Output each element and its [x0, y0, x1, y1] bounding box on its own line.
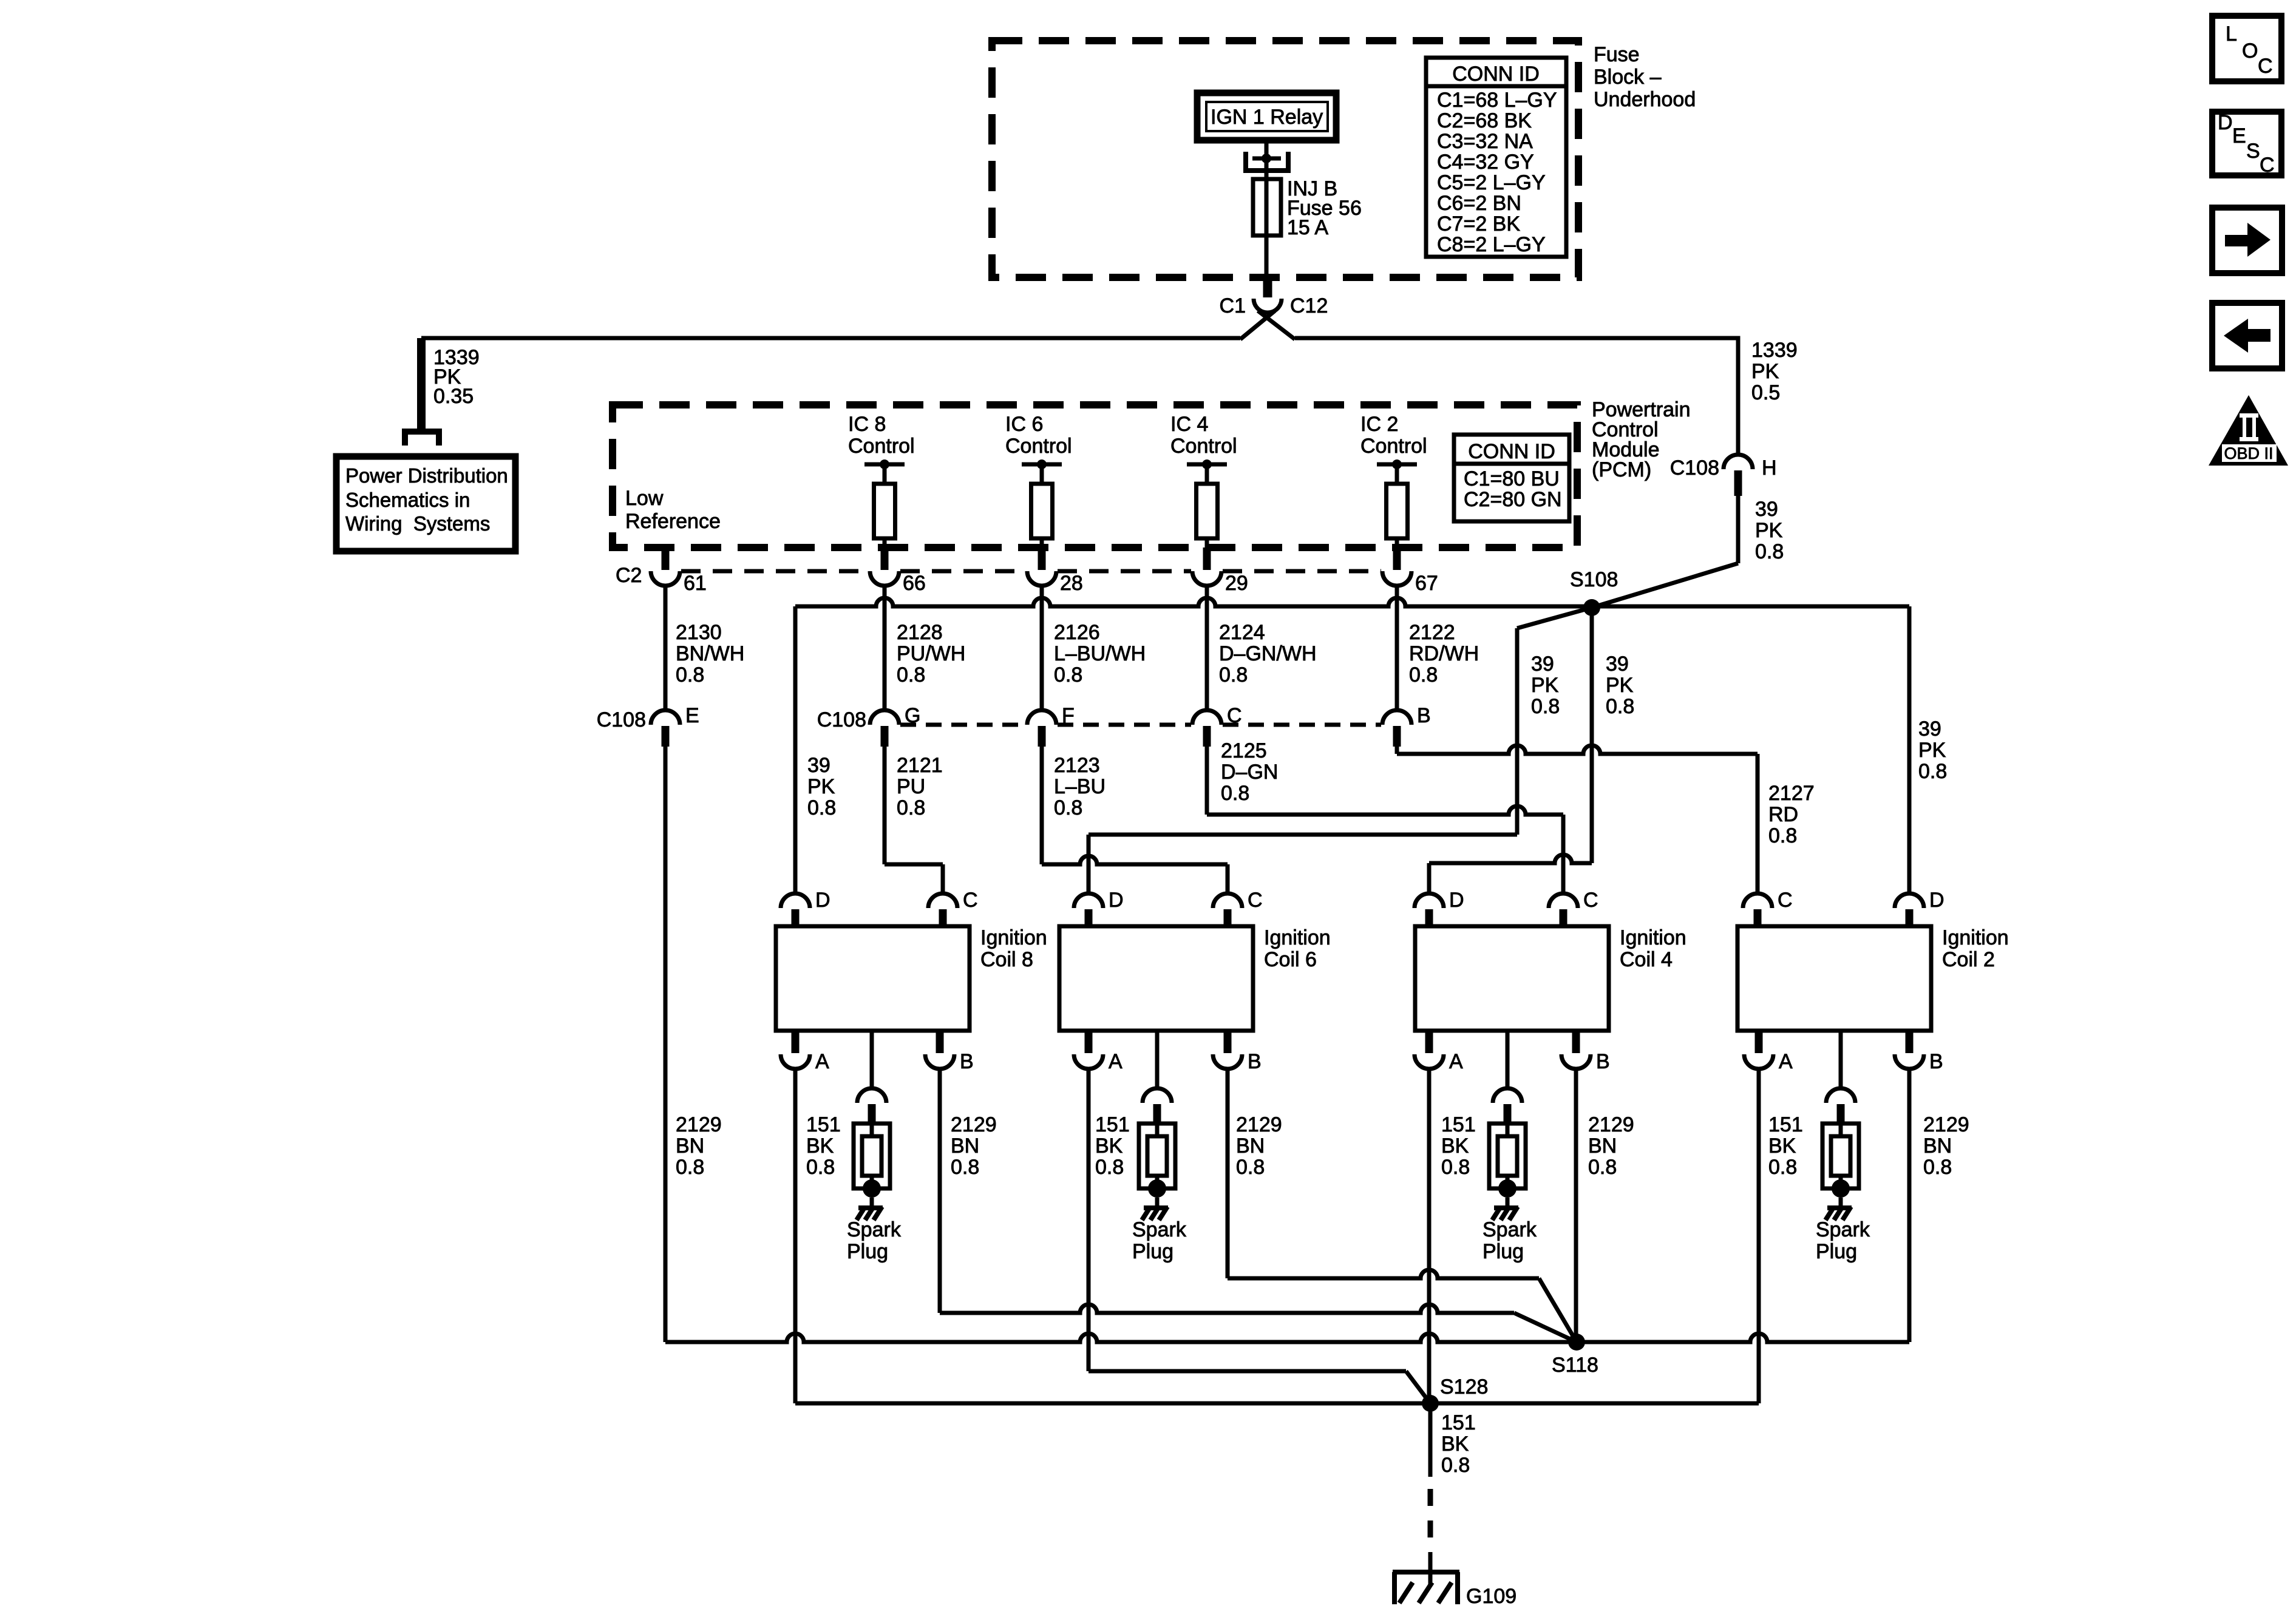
- svg-text:BK: BK: [1441, 1134, 1469, 1158]
- svg-text:0.8: 0.8: [1768, 1156, 1797, 1179]
- svg-text:0.8: 0.8: [897, 796, 925, 819]
- svg-text:C8=2 L–GY: C8=2 L–GY: [1437, 233, 1546, 256]
- svg-text:Underhood: Underhood: [1594, 88, 1696, 111]
- svg-text:G109: G109: [1466, 1585, 1517, 1608]
- svg-text:0.8: 0.8: [1918, 760, 1947, 783]
- svg-text:L–BU: L–BU: [1054, 775, 1106, 798]
- svg-text:0.8: 0.8: [1588, 1156, 1617, 1179]
- svg-text:0.8: 0.8: [1606, 695, 1634, 718]
- svg-text:0.8: 0.8: [1441, 1454, 1470, 1477]
- svg-text:67: 67: [1415, 572, 1438, 595]
- svg-text:0.8: 0.8: [676, 1156, 704, 1179]
- svg-text:RD: RD: [1768, 803, 1798, 826]
- svg-text:H: H: [1762, 456, 1777, 480]
- svg-text:2129: 2129: [1923, 1113, 1969, 1136]
- svg-text:S118: S118: [1552, 1354, 1598, 1377]
- svg-text:Ignition: Ignition: [980, 926, 1047, 949]
- svg-text:39: 39: [1531, 653, 1554, 676]
- svg-text:D: D: [1929, 889, 1944, 912]
- svg-text:D: D: [1449, 889, 1464, 912]
- svg-text:C: C: [2258, 55, 2273, 78]
- svg-text:39: 39: [1606, 653, 1629, 676]
- svg-text:BK: BK: [1768, 1134, 1796, 1158]
- svg-text:C: C: [1778, 889, 1793, 912]
- svg-text:PK: PK: [1606, 674, 1634, 697]
- svg-text:28: 28: [1060, 572, 1083, 595]
- svg-text:2129: 2129: [1236, 1113, 1282, 1136]
- svg-text:39: 39: [807, 754, 830, 777]
- svg-text:CONN ID: CONN ID: [1468, 440, 1555, 463]
- svg-text:Coil 6: Coil 6: [1264, 948, 1317, 971]
- svg-text:C3=32 NA: C3=32 NA: [1437, 130, 1533, 153]
- svg-text:2129: 2129: [676, 1113, 722, 1136]
- svg-text:0.8: 0.8: [897, 663, 925, 686]
- svg-text:D: D: [815, 889, 830, 912]
- svg-text:2128: 2128: [897, 621, 943, 644]
- svg-text:BN: BN: [1588, 1134, 1617, 1158]
- svg-text:2121: 2121: [897, 754, 943, 777]
- svg-text:C2=68 BK: C2=68 BK: [1437, 109, 1532, 132]
- svg-text:39: 39: [1755, 498, 1778, 521]
- svg-text:Plug: Plug: [1132, 1240, 1173, 1263]
- svg-text:BN: BN: [1236, 1134, 1265, 1158]
- svg-text:D: D: [1109, 889, 1124, 912]
- svg-text:S108: S108: [1570, 568, 1618, 591]
- svg-text:Schematics in: Schematics in: [345, 489, 470, 511]
- svg-text:O: O: [2242, 39, 2258, 63]
- svg-text:A: A: [815, 1050, 829, 1073]
- svg-text:L–BU/WH: L–BU/WH: [1054, 642, 1146, 665]
- svg-text:0.8: 0.8: [1221, 782, 1249, 805]
- svg-text:B: B: [1417, 704, 1431, 727]
- svg-text:Spark: Spark: [1132, 1218, 1187, 1241]
- svg-text:Wiring Systems: Wiring Systems: [345, 512, 490, 535]
- svg-text:Plug: Plug: [847, 1240, 888, 1263]
- svg-text:IC 2: IC 2: [1360, 413, 1398, 436]
- svg-text:151: 151: [1768, 1113, 1803, 1136]
- svg-text:15 A: 15 A: [1287, 216, 1328, 239]
- svg-text:Control: Control: [848, 435, 915, 458]
- svg-text:0.8: 0.8: [807, 796, 836, 819]
- svg-text:61: 61: [684, 572, 707, 595]
- svg-text:0.8: 0.8: [1219, 663, 1248, 686]
- svg-text:0.8: 0.8: [806, 1156, 835, 1179]
- svg-text:151: 151: [1441, 1113, 1476, 1136]
- svg-text:C1=68 L–GY: C1=68 L–GY: [1437, 89, 1557, 112]
- svg-text:Ignition: Ignition: [1942, 926, 2009, 949]
- svg-text:BN/WH: BN/WH: [676, 642, 744, 665]
- svg-text:2125: 2125: [1221, 739, 1267, 762]
- svg-text:B: B: [1248, 1050, 1262, 1073]
- svg-text:C5=2 L–GY: C5=2 L–GY: [1437, 171, 1546, 194]
- svg-text:IGN 1 Relay: IGN 1 Relay: [1211, 106, 1323, 129]
- svg-text:0.8: 0.8: [1054, 663, 1082, 686]
- svg-text:C108: C108: [1670, 456, 1719, 480]
- svg-text:39: 39: [1918, 717, 1941, 741]
- svg-text:Ignition: Ignition: [1264, 926, 1331, 949]
- svg-text:Low: Low: [625, 487, 664, 510]
- svg-text:2124: 2124: [1219, 621, 1265, 644]
- svg-text:0.8: 0.8: [1768, 824, 1797, 847]
- svg-text:2129: 2129: [1588, 1113, 1634, 1136]
- svg-text:PK: PK: [1918, 739, 1946, 762]
- svg-text:Ignition: Ignition: [1620, 926, 1686, 949]
- svg-text:C12: C12: [1290, 294, 1328, 317]
- svg-text:Control: Control: [1005, 435, 1072, 458]
- svg-text:PU/WH: PU/WH: [897, 642, 965, 665]
- svg-text:Spark: Spark: [1816, 1218, 1870, 1241]
- svg-text:IC 8: IC 8: [848, 413, 886, 436]
- svg-text:2126: 2126: [1054, 621, 1100, 644]
- svg-text:0.8: 0.8: [676, 663, 704, 686]
- svg-text:Coil 4: Coil 4: [1620, 948, 1673, 971]
- svg-text:Power Distribution: Power Distribution: [345, 464, 508, 487]
- svg-text:151: 151: [1441, 1411, 1476, 1434]
- svg-text:C108: C108: [597, 708, 646, 731]
- svg-text:Plug: Plug: [1483, 1240, 1524, 1263]
- svg-text:BK: BK: [1095, 1134, 1123, 1158]
- svg-text:C1=80 BU: C1=80 BU: [1464, 467, 1560, 490]
- svg-text:C7=2 BK: C7=2 BK: [1437, 212, 1520, 236]
- svg-text:C2: C2: [616, 564, 642, 587]
- svg-text:PK: PK: [1751, 360, 1779, 383]
- svg-text:2127: 2127: [1768, 782, 1815, 805]
- svg-text:0.8: 0.8: [1441, 1156, 1470, 1179]
- svg-text:B: B: [960, 1050, 974, 1073]
- svg-text:C2=80 GN: C2=80 GN: [1464, 488, 1562, 511]
- svg-text:C4=32 GY: C4=32 GY: [1437, 151, 1534, 174]
- svg-text:S128: S128: [1440, 1375, 1488, 1398]
- svg-text:151: 151: [1095, 1113, 1130, 1136]
- svg-text:29: 29: [1225, 572, 1248, 595]
- svg-text:(PCM): (PCM): [1592, 458, 1651, 481]
- svg-text:BK: BK: [1441, 1432, 1469, 1456]
- svg-text:Spark: Spark: [847, 1218, 902, 1241]
- svg-text:A: A: [1779, 1050, 1793, 1073]
- svg-text:D–GN/WH: D–GN/WH: [1219, 642, 1317, 665]
- svg-text:RD/WH: RD/WH: [1409, 642, 1479, 665]
- svg-text:B: B: [1929, 1050, 1943, 1073]
- svg-text:PK: PK: [1755, 519, 1783, 542]
- svg-text:0.8: 0.8: [1923, 1156, 1952, 1179]
- svg-text:E: E: [2232, 124, 2246, 147]
- svg-text:B: B: [1596, 1050, 1610, 1073]
- svg-text:0.8: 0.8: [951, 1156, 979, 1179]
- svg-text:151: 151: [806, 1113, 841, 1136]
- svg-text:2123: 2123: [1054, 754, 1100, 777]
- svg-text:0.8: 0.8: [1054, 796, 1082, 819]
- svg-text:A: A: [1449, 1050, 1463, 1073]
- svg-text:2122: 2122: [1409, 621, 1455, 644]
- svg-text:C1: C1: [1220, 294, 1246, 317]
- svg-text:0.8: 0.8: [1409, 663, 1438, 686]
- svg-text:0.8: 0.8: [1531, 695, 1560, 718]
- svg-text:PK: PK: [807, 775, 835, 798]
- svg-text:A: A: [1109, 1050, 1123, 1073]
- svg-text:D–GN: D–GN: [1221, 761, 1278, 784]
- svg-text:BN: BN: [676, 1134, 704, 1158]
- svg-text:D: D: [2218, 111, 2233, 134]
- svg-text:Reference: Reference: [625, 510, 721, 533]
- svg-text:IC 6: IC 6: [1005, 413, 1043, 436]
- svg-text:Coil 8: Coil 8: [980, 948, 1033, 971]
- svg-text:BN: BN: [951, 1134, 979, 1158]
- svg-text:0.5: 0.5: [1751, 381, 1780, 404]
- svg-text:BN: BN: [1923, 1134, 1952, 1158]
- svg-text:0.8: 0.8: [1236, 1156, 1265, 1179]
- svg-text:CONN ID: CONN ID: [1452, 63, 1540, 86]
- svg-text:OBD II: OBD II: [2224, 444, 2273, 463]
- svg-text:C6=2 BN: C6=2 BN: [1437, 192, 1521, 215]
- svg-text:C: C: [2260, 154, 2275, 177]
- svg-text:Coil 2: Coil 2: [1942, 948, 1995, 971]
- svg-text:66: 66: [903, 572, 926, 595]
- svg-text:BK: BK: [806, 1134, 834, 1158]
- svg-text:Block –: Block –: [1594, 66, 1662, 89]
- svg-text:Control: Control: [1170, 435, 1237, 458]
- svg-text:C108: C108: [817, 708, 866, 731]
- svg-text:0.35: 0.35: [433, 385, 474, 408]
- svg-text:C: C: [1248, 889, 1263, 912]
- svg-text:Spark: Spark: [1483, 1218, 1537, 1241]
- svg-text:PU: PU: [897, 775, 925, 798]
- svg-text:C: C: [963, 889, 978, 912]
- svg-text:L: L: [2226, 22, 2237, 46]
- svg-text:E: E: [685, 704, 699, 727]
- svg-text:Plug: Plug: [1816, 1240, 1857, 1263]
- svg-text:2130: 2130: [676, 621, 722, 644]
- svg-text:0.8: 0.8: [1755, 540, 1784, 563]
- svg-text:2129: 2129: [951, 1113, 997, 1136]
- svg-text:0.8: 0.8: [1095, 1156, 1124, 1179]
- svg-text:1339: 1339: [1751, 339, 1798, 362]
- svg-text:PK: PK: [1531, 674, 1559, 697]
- svg-text:S: S: [2246, 140, 2260, 163]
- svg-text:C: C: [1583, 889, 1598, 912]
- svg-text:IC 4: IC 4: [1170, 413, 1208, 436]
- svg-text:Control: Control: [1360, 435, 1427, 458]
- svg-text:Fuse: Fuse: [1594, 43, 1640, 66]
